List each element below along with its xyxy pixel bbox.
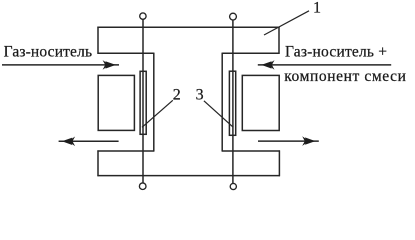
leader line to label 2 — [142, 100, 173, 127]
block 1 top manifold top edge — [97, 26, 279, 28]
svg-text:2: 2 — [173, 87, 181, 104]
bottom left terminal — [139, 183, 146, 190]
sample gas inlet flow line — [258, 64, 391, 66]
carrier gas inlet flow line — [2, 64, 119, 66]
left cell block — [98, 75, 134, 130]
svg-text:3: 3 — [196, 87, 204, 104]
bottom manifold top edge right segment — [222, 150, 280, 152]
left outlet arrowhead — [62, 138, 72, 145]
left lead wire — [142, 19, 144, 183]
top left terminal — [140, 13, 146, 19]
bottom manifold right edge — [278, 150, 280, 176]
filament 3 envelope — [229, 71, 235, 135]
svg-text:1: 1 — [313, 0, 321, 17]
left chamber inner wall — [153, 53, 155, 152]
right lead wire — [232, 20, 234, 184]
carrier gas inlet arrowhead — [105, 61, 115, 68]
bottom manifold left edge — [97, 150, 99, 176]
sample gas inlet arrowhead — [261, 61, 271, 68]
bottom manifold bottom edge — [97, 175, 280, 177]
leader line to label 1 — [264, 11, 309, 35]
right outlet flow line — [258, 140, 319, 142]
right outlet arrowhead — [305, 137, 315, 144]
filament 2 envelope — [140, 71, 146, 134]
bottom manifold top edge left segment — [97, 150, 153, 152]
right chamber inner wall — [221, 53, 223, 152]
left outlet flow line — [59, 140, 119, 142]
top right terminal — [230, 13, 237, 20]
svg-text:Газ-носитель: Газ-носитель — [4, 43, 93, 60]
right cell block — [242, 75, 279, 130]
block 1 top manifold bottom edge right segment — [222, 52, 279, 54]
bottom right terminal — [230, 183, 236, 189]
svg-text:компонент смеси: компонент смеси — [284, 68, 406, 85]
block 1 top manifold right edge — [278, 27, 280, 54]
block 1 top manifold left edge — [97, 27, 99, 54]
svg-text:Газ-носитель +: Газ-носитель + — [285, 43, 387, 60]
block 1 top manifold bottom edge left segment — [97, 52, 153, 54]
leader line to label 3 — [204, 101, 233, 128]
